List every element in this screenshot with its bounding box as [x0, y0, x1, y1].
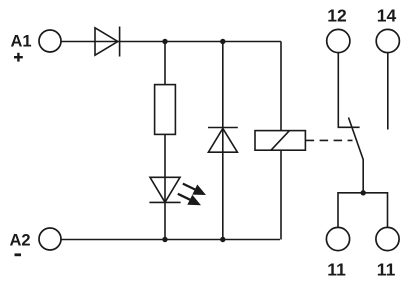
contact seat 12 — [338, 126, 360, 128]
polarity + — [14, 53, 23, 62]
relay coil K1 — [255, 131, 305, 151]
terminal 11 left — [326, 227, 349, 250]
node junction top left — [162, 39, 167, 44]
label 11 right — [377, 259, 396, 279]
svg-text:11: 11 — [377, 259, 396, 279]
terminal A1 — [39, 30, 61, 52]
svg-text:A1: A1 — [11, 33, 32, 51]
wire from terminal 12 — [337, 53, 339, 128]
svg-text:A2: A2 — [10, 232, 31, 250]
label A2 — [10, 232, 31, 250]
wire coil branch vertical — [280, 42, 282, 240]
wire freewheel diode branch vertical — [222, 42, 224, 240]
LED emission arrow 1 — [183, 184, 206, 195]
terminal 11 right — [376, 227, 399, 250]
diode V2 (freewheeling, across coil) — [208, 128, 238, 153]
mechanical link (dashed) — [306, 139, 353, 141]
terminal 14 — [376, 29, 399, 52]
label A1 — [11, 33, 32, 51]
LED emission arrow 2 — [178, 194, 201, 205]
wire from terminal 14 — [387, 53, 389, 130]
resistor R1 — [155, 85, 176, 135]
polarity - — [15, 253, 22, 256]
wire LED branch vertical — [164, 42, 166, 240]
wire bottom bus — [62, 239, 281, 241]
svg-text:12: 12 — [327, 5, 347, 25]
wire common connector — [338, 193, 388, 227]
terminal 12 — [327, 29, 350, 52]
node junction bottom middle — [220, 237, 225, 242]
svg-text:14: 14 — [377, 5, 397, 25]
node junction bottom left — [162, 237, 167, 242]
node junction top middle — [220, 39, 225, 44]
label 14 — [377, 5, 397, 25]
LED indicator diode — [149, 177, 180, 202]
node junction common — [361, 190, 366, 195]
wire top bus — [62, 41, 282, 43]
label 12 — [327, 5, 347, 25]
svg-text:11: 11 — [327, 259, 346, 279]
diode V1 (input, series) — [95, 27, 120, 57]
contact blade (changeover) — [349, 118, 364, 160]
wire blade to common — [362, 159, 364, 193]
label 11 left — [327, 259, 346, 279]
terminal A2 — [39, 228, 61, 250]
